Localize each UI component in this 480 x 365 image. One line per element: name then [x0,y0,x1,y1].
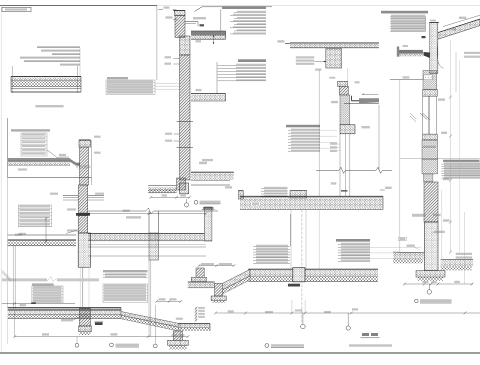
S1 title dark row [222,6,266,9]
SG title dark [381,11,428,14]
F basement floor slab right span [305,268,378,270]
second 1.50 mark [166,16,173,18]
dim text 4.20 [15,234,22,236]
T1 lower floor slab [191,171,234,173]
G wall block below gutter [423,71,437,90]
E elev text on slab [176,318,183,320]
SG2 title dark [443,160,480,162]
G slope dim line [443,15,480,26]
wall C hatch below sill [78,216,88,233]
slope pct label [403,45,409,47]
stack S2 collector [216,62,218,94]
G footing pad [416,271,445,277]
detail A ext line left [11,66,13,93]
G dim line bottom [404,283,473,285]
caption detail 1 [194,200,198,204]
T1 roof access label [193,17,206,19]
F wall cap dark mark [341,190,347,191]
E pier2 centre [173,331,182,340]
F dark label under pier [288,284,300,287]
G flashing curve [437,40,443,68]
SC leader [320,141,337,143]
T1 left dim text 2 [165,140,172,142]
border bottom [0,352,480,354]
T1 footing / ground [148,185,177,187]
T2 floor beam [340,125,355,134]
dampproof label [434,231,445,233]
G inner beam box [424,75,433,80]
dim vertical x46 [45,217,47,243]
G wall checker 3 [424,174,433,182]
dim 5.70 text [459,17,466,19]
sanshui label [400,238,406,241]
T2 wall line down3 [349,134,351,197]
E leader text dianceng [61,319,73,322]
T1 wall masonry full height [180,55,191,180]
F left upstand [238,191,243,199]
G level line 5.20 [403,76,410,78]
detail B parapet cap [79,140,91,147]
E ramp down [120,308,122,312]
T1 ground xhatch strip [148,189,177,193]
long extension x156.5 [156,6,158,81]
F roof curb [290,191,307,198]
small elev text left [50,193,58,195]
T2 right face line [378,105,380,171]
T2 wall checker insulation [340,95,350,125]
pad dim 120 [179,334,185,336]
E level-2 slab [178,323,210,325]
caption detail 2 [110,343,114,347]
sill leader text [412,214,426,216]
SB title [107,77,128,79]
grid bubble A right [427,290,431,294]
grade label text [67,229,79,231]
border left [0,5,2,353]
break line y170.3 [316,169,339,171]
wall centerline to footing [82,267,84,307]
F foundation beam pier [293,268,305,282]
UR pier on slab [196,268,204,277]
F bottom dim line [216,312,480,314]
retaining wall right end [204,207,212,241]
T2 wall line down1 [339,134,341,197]
stack S1 collector [220,9,222,31]
wall B-C masonry hatch upper [80,147,89,185]
T1 roof slab [191,30,226,32]
E dim line y301.3 over pier [157,300,181,302]
E pier1 under wall C [79,308,90,326]
dim text chain 2 [443,219,450,221]
SF title [336,239,370,242]
SB leader [155,82,180,84]
grade leader [66,230,77,233]
sub-slab line 0 [88,243,206,245]
elevation triangle T1 [173,10,177,12]
dark mini label [31,302,36,304]
pm0.000 label [67,208,76,210]
window label [355,81,360,83]
G outdoor grade left [393,251,424,254]
detail B title row [11,129,50,131]
detail B baseline [8,177,92,179]
SF leader to wall G [370,252,421,254]
dim 2380 [111,333,118,335]
T2 interior floor slab [351,96,353,101]
SF2 collector [290,214,292,246]
UR slab [188,281,215,283]
detail B left edge line [7,118,9,178]
E dark label [95,322,103,325]
F curb annotation stack [264,187,288,188]
T1 parapet cap [175,11,186,16]
vertical x319 [318,70,320,196]
notes title shuoming [362,333,369,336]
SF leader to wall G [370,246,421,248]
dim near beam [361,126,369,128]
dim 150 above cap [430,20,436,22]
E level line -0.550 [2,303,75,305]
elev 1.50 T1 [164,7,170,9]
grid bubble A centre [301,324,306,329]
grid bubble below wall C [75,343,79,347]
indoor ground slab [88,233,204,235]
T1 parapet masonry [175,16,185,38]
light repressed band y279 [2,278,47,281]
G sunken grade right [441,259,473,261]
detail A stack collector [79,48,81,77]
T2 small label left of wall [331,101,338,103]
SC leader [320,147,337,149]
detail A caption [35,105,63,107]
T2 hanging concrete block [326,49,342,68]
elev tick T1 [158,9,163,11]
upper roof line [202,6,272,8]
right note row2 [464,56,480,58]
wall C masonry hatch [78,185,88,213]
T2 block hanger line [347,68,349,81]
T2 wall line down2 [344,134,346,197]
pad dim 240 [172,334,178,336]
E bottom dim line 2380 [15,336,188,338]
dim 250 [352,308,358,310]
vertical x319 lower [318,210,320,270]
left edge line continues [7,178,9,308]
T1 concrete beam below roof [180,36,191,55]
internal dim text [423,146,436,148]
SB leader [155,88,180,90]
detail A slab layers [11,75,81,77]
UR right pier [215,283,223,296]
elev 4.00 [278,40,285,42]
level line y211 with break [88,210,146,212]
F verticals below curb [290,210,292,270]
detail B table box [21,133,47,156]
dim 7.00 G [438,98,445,100]
outdoor pavement dark band [8,239,76,241]
G wall checker 1 [422,140,438,159]
label below level line [126,216,141,218]
F elevation labels 5.60 [251,202,260,205]
T2 roof slab [290,42,379,44]
wall right face line [91,140,93,185]
outdoor grade line left [8,234,76,236]
-0.450 text [433,214,441,216]
G bond beam stipple [423,89,438,96]
UR ramp up to F slab [223,269,250,289]
window head lines left [63,195,78,197]
RL mark [422,36,426,38]
outdoor pavement hatch [8,241,76,245]
G sloped glass roof band [438,19,480,39]
detail B slab ramp to wall [70,159,80,166]
T1 slope dim vertical [213,35,215,44]
dim 370 [295,309,303,311]
SG collector vertical [424,16,426,31]
E dim tick stack x196 [195,307,197,322]
G wall checker 2 [422,159,438,174]
G long verticals [399,80,401,252]
SF leader to wall G [370,258,421,260]
caption detail 3 [265,344,269,348]
T1 tie line 2 [177,147,194,149]
elev 7.00 [165,56,172,58]
dim 1760 [228,310,234,312]
SE-right title [103,270,148,272]
small elev text right [95,193,104,195]
elev 1.50 right of wall [94,136,101,138]
dim 300 below slab2 [225,186,232,188]
dim line y213.6 [88,213,206,215]
dim left [42,333,49,335]
break jog on grid line [2,270,11,279]
elev 5.60 near wall [331,182,337,184]
E high slab layers [8,307,121,309]
F basement floor slab left span [248,268,292,270]
T1 left dim text 1 [165,133,172,135]
G gutter [398,50,423,54]
T2 window labels [330,143,337,145]
T2 ceiling note rows [296,56,314,58]
G break mark [420,113,427,120]
label jiegouban [315,69,322,71]
T1 tie line 1 [177,121,194,123]
grade label G [407,245,415,247]
T1 roof break diagonal [195,7,203,12]
detail B small note 1:100 [18,168,27,170]
SC title row [286,125,320,128]
dim vertical x456 [455,52,457,92]
slope label [59,154,66,156]
title box top-left [2,7,31,11]
window head lines right [88,195,104,197]
UR top dim [199,265,234,267]
slope arrow line [56,156,69,158]
right note row1 [464,52,480,54]
E leader text sutu [95,321,104,324]
dim 1800 [265,311,273,313]
G window lines [422,96,424,134]
E grid twins and bubble B left [148,260,150,337]
wall C concrete below grade [78,233,90,267]
caption detail 4 [415,299,419,303]
SB leader [155,85,180,87]
detail B leader [47,150,56,157]
interior column D [148,211,150,233]
border top dark left segment [0,5,157,7]
G wall lower hatch to grade [424,182,438,222]
T1 footing dims [151,196,190,198]
ground floor sill dark band [76,213,90,216]
dim 4.80 G [441,132,447,134]
grid bubble A below T1 [184,203,188,207]
border top faint full width [0,4,480,6]
dim 1740 [324,311,331,313]
note line 1 [349,344,392,346]
left edge line lowest [7,319,9,345]
G wall below grade concrete [424,222,438,271]
SC leader [320,129,337,131]
T2 hatch under beam [339,86,348,95]
dim 30 [452,28,456,30]
T2 window head beam [338,81,348,86]
G wall upper concrete [430,23,438,74]
T1 mid floor slab [191,93,226,95]
detail C annotation table [18,205,51,227]
-0.020 label [19,233,27,235]
arrow above slab [362,94,379,96]
-0.550 text [20,304,27,306]
F roof slab [240,195,383,197]
sub-slab line 2 [88,255,206,257]
detail B roof slab finish band [8,158,70,160]
sub-slab line 1 [88,246,206,248]
arrowhead [324,61,327,63]
floor level line G [400,158,480,160]
S2 title dark row [238,59,266,62]
dim 1.10 [196,89,202,91]
dim text chain 1 [443,178,450,180]
elev 2.550 [329,77,335,79]
title box text [5,8,27,10]
G windowsill band [423,134,438,140]
grid twin verticals left [12,246,14,310]
grid bubble B centre [346,326,350,330]
SC leader [320,135,337,137]
F centerline dashed [301,210,303,323]
T1 coping profile [185,21,198,23]
SE-left title [32,283,54,285]
detail B slab stipple [8,162,70,165]
label above lower slab [202,159,213,161]
elev 5.00 [165,63,172,65]
detail A ext line right [77,66,79,93]
dim 1.40 [196,40,202,42]
extension line x157 [156,6,158,81]
elev mark 2 [94,152,101,154]
stack SF2 rows [256,245,288,247]
detail A annotation stack [37,46,80,47]
gutter drain wedge [424,52,430,58]
dim 2.80 [123,210,131,212]
